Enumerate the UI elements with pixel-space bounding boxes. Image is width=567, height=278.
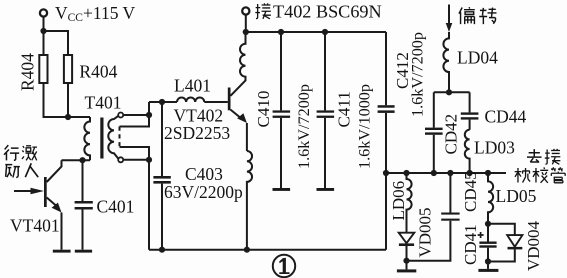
wire Vcc to resistors: [44, 31, 69, 55]
svg-text:T401: T401: [85, 93, 122, 113]
svg-text:VT401: VT401: [10, 216, 60, 236]
capacitor C412: [378, 32, 427, 250]
node C401 top junction: [79, 157, 85, 163]
wire resistors to T401 primary: [44, 83, 91, 117]
node C411 top: [322, 29, 328, 35]
inductor VT402 emitter choke: [247, 151, 252, 250]
wire tap lower bracket: [120, 147, 150, 250]
label Vcc +115 V: [55, 3, 136, 24]
wire top rail: [246, 31, 386, 33]
label 偏转: [459, 7, 497, 24]
svg-text:VD005: VD005: [416, 207, 435, 257]
inductor LD03: [465, 130, 515, 173]
ground VT401 emitter: [53, 250, 71, 253]
svg-text:2SD2253: 2SD2253: [164, 123, 230, 143]
node pincushion rail junction: [383, 170, 389, 176]
svg-text:C401: C401: [97, 197, 135, 217]
node LD06 top: [403, 170, 409, 176]
svg-text:63V/2200p: 63V/2200p: [164, 182, 243, 202]
inductor L401: [174, 76, 211, 103]
label 去接: [527, 149, 560, 165]
svg-text:1.6kV/7200p: 1.6kV/7200p: [409, 32, 427, 117]
node LD04 bottom split: [446, 89, 452, 95]
node CD41 bottom: [485, 258, 491, 264]
capacitor CD45: [441, 171, 480, 220]
node CD42 bottom: [431, 170, 437, 176]
svg-text:CD41: CD41: [461, 224, 480, 265]
terminal T401 secondary bottom: [118, 157, 123, 162]
transistor VT402: [164, 77, 247, 151]
transformer T401 primary winding: [84, 117, 90, 160]
wire deflection input arrow: [446, 5, 453, 33]
inductor LD06: [389, 173, 412, 233]
capacitor C401: [75, 160, 135, 250]
wire pincushion rail: [386, 172, 506, 174]
node resistor bottom junction: [65, 114, 71, 120]
svg-text:CD45: CD45: [461, 171, 480, 212]
wire secondary top to node: [123, 114, 149, 116]
node Vcc junction: [40, 28, 46, 34]
node secondary top junction: [146, 112, 152, 118]
capacitor CD41 electrolytic: [478, 224, 497, 262]
ground C410: [273, 188, 291, 191]
node CD45 top: [447, 170, 453, 176]
diode VD005: [399, 207, 435, 260]
inductor LD04: [443, 32, 498, 92]
node VD005 bottom: [403, 258, 409, 264]
svg-text:1.6kV/7200p: 1.6kV/7200p: [295, 84, 313, 169]
svg-text:L401: L401: [174, 76, 211, 96]
node C410 top: [278, 29, 284, 35]
label 接T402 BSC69N: [255, 2, 381, 22]
svg-text:LD03: LD03: [474, 138, 515, 158]
svg-text:LD04: LD04: [457, 48, 498, 68]
node LD05 top: [485, 170, 491, 176]
terminal T401 secondary top: [118, 113, 123, 118]
svg-text:VCC+115 V: VCC+115 V: [55, 3, 136, 24]
svg-text:C410: C410: [254, 91, 273, 128]
wire base drop upper: [120, 102, 150, 127]
node circled 1: [273, 255, 295, 277]
node LD03 bottom: [467, 170, 473, 176]
wire VD005 to CD45 bottom: [407, 221, 451, 261]
node secondary bottom junction: [146, 157, 152, 163]
ground C411: [317, 188, 335, 191]
svg-text:C411: C411: [335, 91, 354, 127]
label 枕校管: [515, 167, 566, 183]
wire VT401 base input with arrow: [14, 188, 44, 195]
svg-text:T402 BSC69N: T402 BSC69N: [273, 2, 382, 22]
ground VD005: [397, 261, 416, 273]
capacitor CD42: [425, 92, 461, 173]
svg-text:1.6kV/1000p: 1.6kV/1000p: [356, 84, 374, 169]
wire base row left: [149, 101, 177, 103]
node collector rail left: [243, 29, 249, 35]
transistor VT401: [10, 160, 62, 250]
label 励入: [5, 163, 38, 177]
svg-text:LD05: LD05: [496, 186, 537, 206]
capacitor C410: [254, 32, 313, 188]
wire bottom rail: [149, 249, 386, 251]
node LD05 bottom: [485, 221, 491, 227]
wire split to CD42 and CD44: [434, 91, 470, 93]
svg-text:CD42: CD42: [442, 114, 461, 155]
ground CD41: [478, 262, 498, 272]
transformer T401 core: [100, 118, 103, 159]
node C403 top junction: [159, 99, 165, 105]
inductor LD05: [488, 173, 537, 224]
svg-text:C403: C403: [185, 164, 223, 184]
capacitor CD44: [461, 92, 527, 130]
wire L401 to VT402 base: [204, 101, 228, 103]
resistor R404 (right): [64, 55, 118, 83]
capacitor C411: [317, 32, 374, 188]
wire T401 primary bottom to VT401 collector: [62, 159, 91, 161]
svg-text:CD44: CD44: [485, 107, 527, 127]
resistor R404 (left): [18, 53, 48, 91]
svg-text:R404: R404: [79, 62, 117, 82]
transformer T401 secondary winding: [108, 116, 118, 159]
node C403 bottom junction: [159, 247, 165, 253]
inductor VT402 collector choke: [240, 32, 246, 81]
label 行激: [4, 145, 37, 160]
wire VD004 branch: [488, 224, 515, 262]
svg-text:LD06: LD06: [389, 181, 408, 221]
node emitter bottom junction: [244, 247, 250, 253]
wire tap dashed link: [119, 127, 121, 148]
terminal 接T402 BSC69N: [242, 7, 249, 32]
svg-text:R404: R404: [18, 53, 38, 91]
wire secondary bottom to node: [123, 159, 149, 161]
diode VD004: [507, 220, 543, 271]
ground C401: [75, 250, 92, 253]
capacitor C403: [153, 102, 243, 250]
terminal Vcc +115V: [40, 9, 47, 31]
svg-text:VD004: VD004: [524, 220, 543, 271]
